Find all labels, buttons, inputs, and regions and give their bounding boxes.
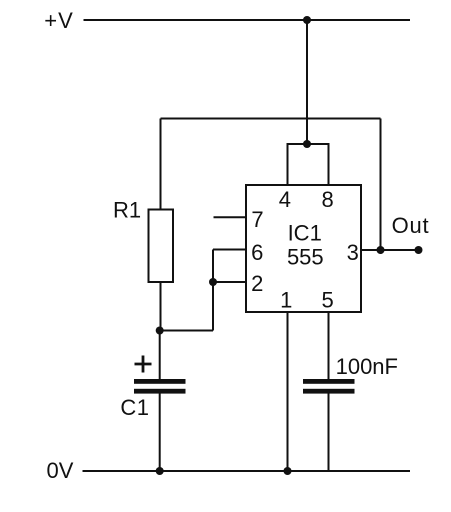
node junction +V rail [303, 16, 311, 24]
wire pin 8 lead [328, 143, 330, 185]
C1 polarity plus sign [135, 363, 152, 366]
op-amp U1 IC1 555 body [246, 185, 361, 312]
wire pin 2 stub [213, 281, 246, 283]
wire pin 3 output lead [361, 249, 419, 251]
wire 100nF bottom lead [328, 393, 330, 471]
svg-text:R1: R1 [113, 198, 141, 223]
resistor R1 body [149, 210, 174, 283]
node junction R1/C1 [156, 327, 164, 335]
svg-text:100nF: 100nF [336, 354, 398, 379]
capacitor C1 bottom plate [134, 389, 186, 394]
svg-text:1: 1 [280, 288, 292, 313]
node Out terminal [415, 246, 423, 254]
wire R1 bottom lead [160, 282, 162, 331]
svg-text:7: 7 [251, 207, 263, 232]
svg-text:3: 3 [347, 240, 359, 265]
svg-text:IC1: IC1 [288, 221, 322, 246]
capacitor C2 100nF bottom plate [303, 389, 355, 394]
node junction pin 2 [209, 278, 217, 286]
svg-text:Out: Out [392, 213, 430, 238]
wire C1 top lead [159, 331, 161, 381]
wire R1 top to feedback [160, 119, 162, 210]
svg-text:8: 8 [321, 187, 333, 212]
svg-text:0V: 0V [47, 458, 74, 483]
wire pin 5 lead [328, 312, 330, 380]
node junction output [377, 246, 385, 254]
wire pin 6 stub [213, 249, 246, 251]
wire trigger branch horizontal [160, 330, 213, 332]
wire feedback horizontal (crosses +V drop without junction) [161, 118, 381, 120]
wire +V top rail [84, 19, 411, 21]
svg-text:C1: C1 [120, 395, 149, 420]
svg-text:5: 5 [321, 288, 333, 313]
wire pin 7 stub [214, 216, 247, 218]
svg-text:6: 6 [251, 240, 263, 265]
svg-text:4: 4 [279, 187, 291, 212]
svg-text:2: 2 [251, 271, 263, 296]
node junction pin 1 ground [284, 467, 292, 475]
wire feedback drop to output node [380, 119, 382, 251]
wire pin 4 lead [287, 143, 289, 185]
wire 0V bottom rail [83, 470, 411, 472]
capacitor C1 top plate [134, 379, 186, 384]
node junction supply bracket [303, 140, 311, 148]
wire C1 bottom lead [159, 393, 161, 471]
svg-text:555: 555 [287, 245, 324, 270]
wire +V drop to IC supply [306, 20, 308, 144]
svg-text:+V: +V [44, 8, 74, 33]
capacitor C2 100nF top plate [303, 379, 355, 384]
wire pins 6-2 tie vertical [212, 250, 214, 331]
wire pin 1 to ground [287, 312, 289, 471]
node junction C1 ground [156, 467, 164, 475]
wire supply bracket horizontal [288, 143, 329, 145]
